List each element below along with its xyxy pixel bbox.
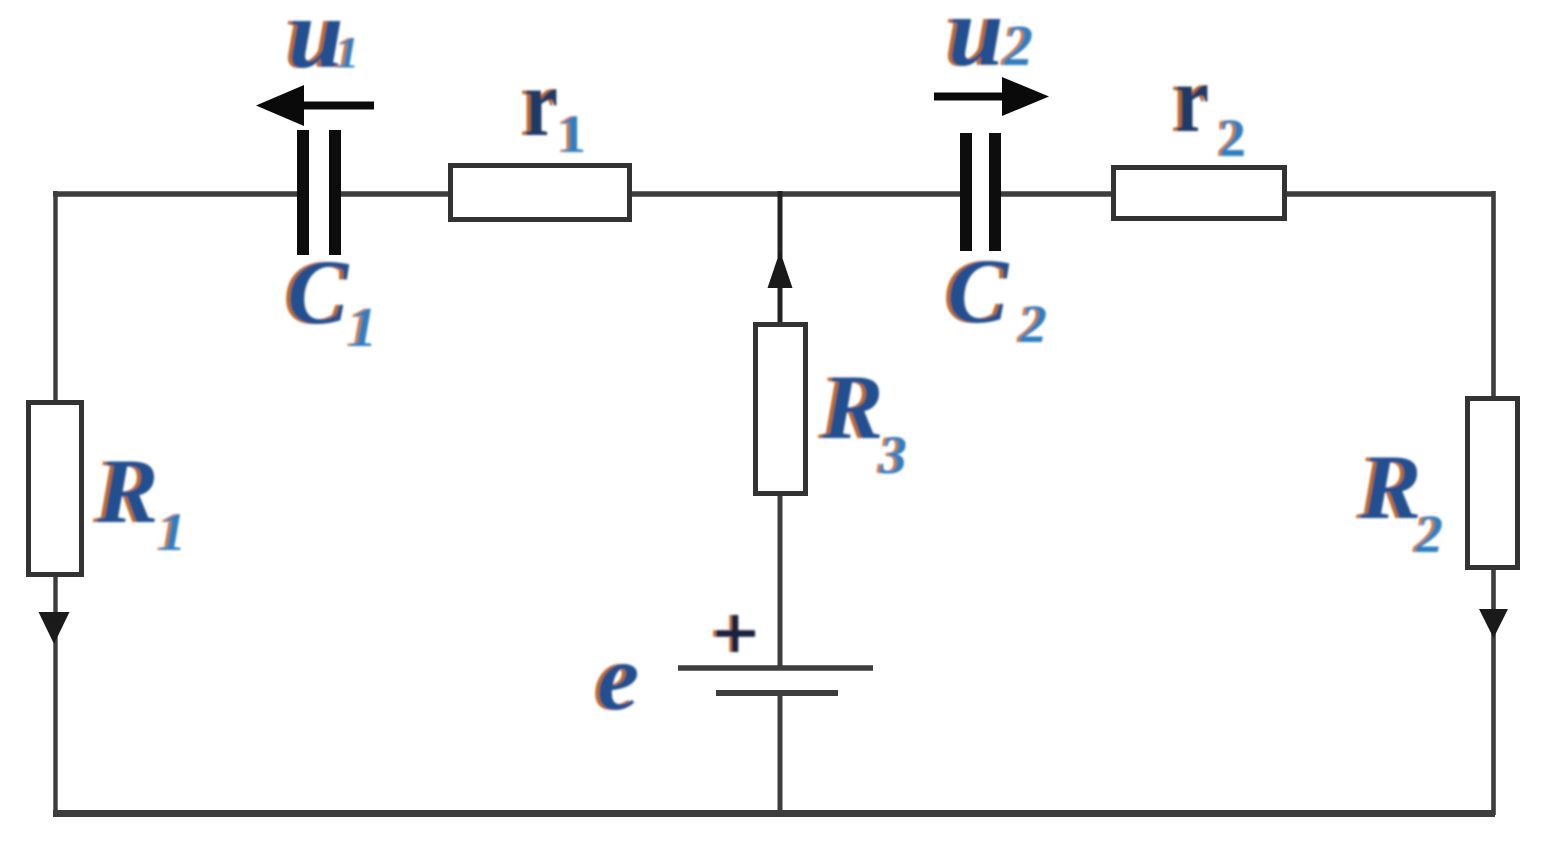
battery plus sign xyxy=(713,615,755,652)
svg-text:2: 2 xyxy=(1219,108,1246,168)
u1 voltage arrow (pointing left) xyxy=(256,85,374,126)
wire: center vertical from top node down to R3 xyxy=(778,191,783,324)
battery e bottom plate (short) xyxy=(716,690,838,696)
svg-text:1: 1 xyxy=(349,297,377,359)
resistor r1 xyxy=(451,166,630,220)
svg-text:R: R xyxy=(96,440,158,542)
resistor R3 xyxy=(756,325,806,494)
wire: top segment from C1 right plate to r1 xyxy=(339,191,452,196)
capacitor C2 right plate xyxy=(989,133,1001,251)
svg-text:2: 2 xyxy=(1003,13,1033,78)
svg-text:1: 1 xyxy=(559,104,586,164)
wire: top segment from r1 to C2 left plate (through center node) xyxy=(629,191,962,196)
svg-text:u: u xyxy=(948,0,1004,87)
svg-text:3: 3 xyxy=(879,425,907,485)
resistor R3 current arrow (up) xyxy=(768,251,793,288)
resistor R2 current arrow (down) xyxy=(1479,609,1508,638)
wire: left vertical lower (R1 down to bottom corner) xyxy=(53,576,57,815)
label C2 xyxy=(943,240,1047,354)
svg-text:e: e xyxy=(597,624,639,730)
capacitor C1 right plate xyxy=(329,130,341,255)
resistor R2 xyxy=(1468,399,1518,568)
svg-text:2: 2 xyxy=(1019,294,1047,354)
capacitor C1 left plate xyxy=(297,130,309,255)
wire: bottom wire xyxy=(53,810,1495,817)
resistor r2 xyxy=(1114,168,1285,219)
wire: right vertical upper (top corner down to R2) xyxy=(1491,191,1496,398)
u2 voltage arrow (pointing right) xyxy=(934,77,1049,116)
svg-text:C: C xyxy=(947,240,1010,342)
wire: top segment from C2 right plate to r2 xyxy=(999,191,1115,196)
label u1 xyxy=(284,0,359,89)
label r1 xyxy=(520,49,586,164)
label C1 xyxy=(283,241,377,359)
wire: right vertical lower (R2 down to bottom corner) xyxy=(1491,569,1496,815)
resistor R1 current arrow (down) xyxy=(39,612,70,644)
battery e top plate (long, +) xyxy=(678,665,873,671)
resistor R1 xyxy=(29,403,82,575)
label u2 xyxy=(944,0,1033,87)
svg-text:R: R xyxy=(821,356,883,458)
wire: top segment from r2 to right corner xyxy=(1284,191,1495,196)
svg-text:2: 2 xyxy=(1415,504,1443,564)
label R2 xyxy=(1355,436,1443,564)
svg-text:C: C xyxy=(287,241,350,343)
svg-text:r: r xyxy=(1175,45,1209,152)
label e xyxy=(593,624,639,730)
capacitor C2 left plate xyxy=(960,133,972,251)
wire: top segment from left corner to C1 left plate xyxy=(53,191,299,196)
svg-text:1: 1 xyxy=(159,502,186,562)
wire: center vertical from battery bottom plate to bottom wire xyxy=(778,693,783,815)
svg-text:1: 1 xyxy=(337,28,359,77)
wire: center vertical from R3 down to battery top plate xyxy=(778,494,783,668)
label r2 xyxy=(1171,45,1246,168)
label R1 xyxy=(92,440,186,562)
wire: left vertical upper (top corner down to R1) xyxy=(53,191,57,402)
svg-text:r: r xyxy=(524,49,558,156)
label R3 xyxy=(817,356,907,485)
